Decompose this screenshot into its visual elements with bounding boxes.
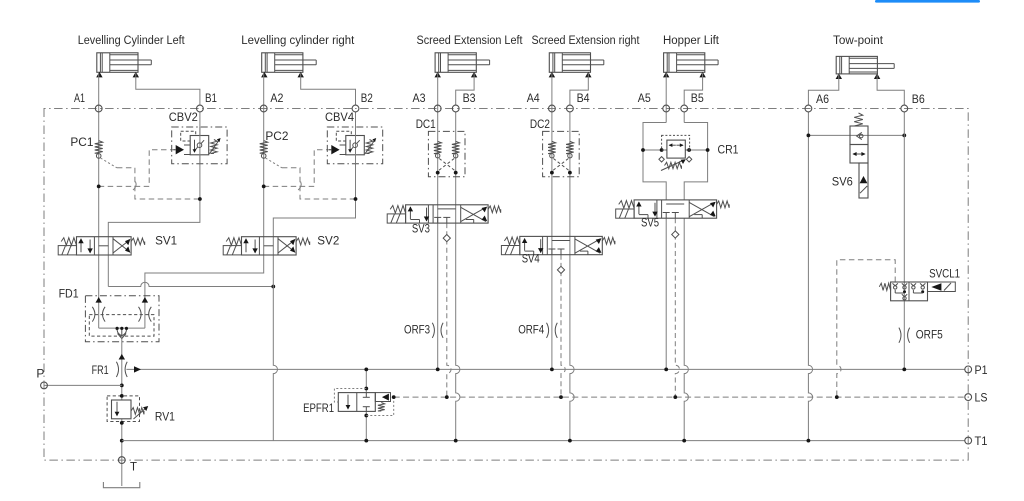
wire B2 line down through CBV4 to SV2 B-port bbox=[273, 112, 355, 237]
node ORF5 P junction bbox=[902, 368, 906, 372]
flow regulator CR1 bridge bbox=[643, 123, 666, 200]
svg-text:LS: LS bbox=[975, 390, 988, 404]
node A2 pilot junction bbox=[262, 185, 266, 189]
svg-text:A2: A2 bbox=[270, 91, 283, 105]
port B4 bbox=[567, 105, 574, 112]
node ORF3 P junction bbox=[436, 368, 440, 372]
wire LS rail (dashed) bbox=[394, 396, 965, 398]
node P junction bbox=[120, 384, 124, 388]
check valve SV3 LS bbox=[443, 235, 450, 242]
port LS bbox=[965, 394, 972, 401]
svg-text:P: P bbox=[36, 367, 44, 381]
cylinder 6 (Tow-point) bbox=[836, 56, 877, 74]
wire FD1 right branch to SV2 A-output bbox=[145, 255, 264, 328]
svg-text:PC2: PC2 bbox=[265, 129, 288, 143]
pressure compensator PC2 bbox=[260, 141, 268, 154]
port T bbox=[118, 457, 125, 464]
svg-text:SV6: SV6 bbox=[832, 175, 853, 189]
node EPFR1 P junction bbox=[364, 368, 368, 372]
orifice ORF4 bbox=[547, 323, 549, 338]
port B6 bbox=[901, 105, 908, 112]
wire T1 rail bbox=[122, 440, 965, 442]
svg-text:CBV2: CBV2 bbox=[169, 110, 198, 124]
port P1 bbox=[965, 366, 972, 373]
wire P port to main line bbox=[44, 384, 122, 386]
svg-text:ORF3: ORF3 bbox=[404, 323, 430, 337]
flow regulator FR1 bbox=[119, 354, 125, 360]
svg-text:Screed Extension Left: Screed Extension Left bbox=[417, 33, 523, 47]
wire EPFR1 riser bbox=[365, 369, 367, 392]
port A1 bbox=[95, 105, 102, 112]
svg-text:CR1: CR1 bbox=[718, 143, 739, 157]
svg-text:SV2: SV2 bbox=[317, 233, 339, 247]
svg-text:P1: P1 bbox=[975, 363, 988, 377]
wire B3 line down to T rail bbox=[456, 112, 460, 441]
svg-text:T1: T1 bbox=[975, 434, 988, 448]
wire cylinder5 rod-side to B5 bbox=[684, 73, 702, 105]
node B1 pilot junction bbox=[198, 197, 202, 201]
wire SV1 B-output down and right to tank drop bbox=[108, 282, 273, 286]
svg-text:B1: B1 bbox=[205, 91, 217, 105]
svg-text:Screed Extension right: Screed Extension right bbox=[532, 33, 640, 47]
blue accent bar (top-right) bbox=[875, 0, 980, 3]
wire FD1 output down to tank port T bbox=[121, 339, 123, 487]
node SV1/SV2 tank-line junction bbox=[271, 285, 275, 289]
counterbalance valve CBV4 bbox=[327, 127, 382, 164]
solenoid valve SVCL1 bbox=[879, 283, 890, 290]
port A2 bbox=[260, 105, 267, 112]
orifice ORF3 bbox=[432, 323, 434, 338]
solenoid cartridge valve SV6 bbox=[854, 113, 863, 126]
node SV3 LS junction bbox=[445, 395, 449, 399]
svg-text:Levelling Cylinder Left: Levelling Cylinder Left bbox=[78, 33, 185, 47]
pilot line PC1 to B1 (dashed) bbox=[101, 158, 117, 168]
wire A5 line to CR1 bbox=[665, 73, 667, 123]
node SV5 LS junction bbox=[673, 395, 677, 399]
wire A5 line down from SV5 to P rail bbox=[665, 218, 667, 369]
LS feeder SV4 (dashed with check) bbox=[561, 255, 565, 397]
wire cylinder6 cap-side to A6 bbox=[808, 74, 838, 105]
port B2 bbox=[352, 105, 359, 112]
svg-text:Levelling cylinder right: Levelling cylinder right bbox=[241, 33, 355, 47]
svg-text:SV5: SV5 bbox=[641, 215, 659, 229]
dual check DC1 bbox=[428, 131, 465, 176]
svg-text:T: T bbox=[130, 460, 138, 474]
wire A3 line down through DC1, SV3 to ORF3 bbox=[437, 73, 439, 370]
svg-text:Hopper Lift: Hopper Lift bbox=[663, 33, 720, 47]
wire A6 line down to T rail bbox=[808, 112, 812, 441]
svg-text:B6: B6 bbox=[912, 92, 925, 106]
node B4 T junction bbox=[568, 439, 572, 443]
svg-text:A1: A1 bbox=[74, 91, 85, 105]
solenoid valve SV5 bbox=[634, 200, 717, 218]
svg-text:B3: B3 bbox=[463, 91, 476, 105]
svg-text:EPFR1: EPFR1 bbox=[303, 401, 334, 415]
wire cylinder6 rod-side to B6 bbox=[877, 74, 904, 105]
port B3 bbox=[452, 105, 459, 112]
tank symbol bbox=[103, 482, 139, 488]
pressure compensator PC1 bbox=[95, 141, 103, 154]
cylinder 5 (Hopper Lift) bbox=[664, 53, 705, 73]
pilot crossing tick section2 bbox=[298, 182, 301, 190]
wire B4 line down to T rail bbox=[570, 112, 574, 441]
port P bbox=[41, 382, 48, 389]
wire A6-B6 cross line through SV6 bbox=[808, 134, 904, 136]
wire P1 rail bbox=[126, 368, 964, 370]
port T1 bbox=[965, 437, 972, 444]
port A6 bbox=[805, 105, 812, 112]
wire cylinder3 rod-side to B3 bbox=[456, 73, 474, 105]
wire A2 line down through PC2 and SV2 bbox=[263, 73, 265, 255]
check valve SV5 LS bbox=[672, 231, 679, 238]
wire A1 line (cylinder1 cap-side down through PC1, SV1 to FD1) bbox=[98, 73, 100, 328]
node SVCL1 LS junction bbox=[835, 395, 839, 399]
pilot crossing tick section1 bbox=[133, 182, 136, 190]
wire B5 line down to T rail bbox=[683, 112, 685, 123]
flow divider FD1 bbox=[85, 296, 159, 342]
LS feeder SV5 (dashed with check) bbox=[675, 218, 679, 397]
node A6 cross junction bbox=[807, 134, 811, 138]
node B3 T junction bbox=[454, 439, 458, 443]
svg-text:A5: A5 bbox=[638, 91, 651, 105]
arrow P rail flow bbox=[134, 366, 141, 372]
node EPFR1 T junction bbox=[364, 439, 368, 443]
wire SV1 B-port pass-through bbox=[107, 237, 109, 255]
node T rail left junction bbox=[120, 439, 124, 443]
wire cylinder1 rod-side to B1 bbox=[136, 73, 200, 105]
svg-text:A3: A3 bbox=[413, 91, 426, 105]
svg-text:SV4: SV4 bbox=[522, 251, 540, 265]
node A6 T junction bbox=[807, 439, 811, 443]
svg-text:SV1: SV1 bbox=[155, 233, 177, 247]
wire cylinder2 rod-side to B2 bbox=[301, 73, 356, 105]
port A5 bbox=[663, 105, 670, 112]
node SV4 LS junction bbox=[559, 395, 563, 399]
manifold boundary frame (dash-dot) bbox=[44, 109, 968, 461]
svg-text:FR1: FR1 bbox=[92, 363, 109, 377]
node B6 cross junction bbox=[902, 134, 906, 138]
svg-text:FD1: FD1 bbox=[59, 287, 79, 301]
solenoid valve SV2 bbox=[242, 237, 297, 255]
svg-text:PC1: PC1 bbox=[70, 135, 93, 149]
node B5 T junction bbox=[682, 439, 686, 443]
svg-text:A6: A6 bbox=[816, 92, 829, 106]
svg-text:SV3: SV3 bbox=[412, 222, 430, 236]
port A3 bbox=[434, 105, 441, 112]
cylinder 2 (Levelling cylinder right) bbox=[262, 53, 303, 73]
dual check DC2 bbox=[543, 131, 580, 176]
node A1 pilot junction bbox=[97, 185, 101, 189]
svg-text:DC1: DC1 bbox=[416, 117, 436, 131]
wire B6 line down through SVCL1 and ORF5 to P rail bbox=[903, 112, 905, 370]
solenoid valve SV3 bbox=[406, 205, 489, 223]
svg-text:B4: B4 bbox=[577, 91, 590, 105]
check valve SV4 LS bbox=[557, 266, 564, 273]
pilot line PC2 to B2 (dashed) bbox=[266, 158, 282, 168]
cylinder 3 (Screed Extension Left) bbox=[435, 53, 476, 73]
svg-text:B5: B5 bbox=[691, 91, 704, 105]
port B5 bbox=[681, 105, 688, 112]
svg-text:Tow-point: Tow-point bbox=[833, 33, 884, 47]
svg-text:A4: A4 bbox=[527, 91, 540, 105]
svg-text:DC2: DC2 bbox=[530, 117, 550, 131]
wire A4 line down through DC2, SV4 to ORF4 bbox=[551, 73, 553, 370]
pilot line A2 to CBV4 (dashed) bbox=[264, 150, 332, 187]
svg-text:ORF4: ORF4 bbox=[518, 323, 544, 337]
node ORF4 P junction bbox=[550, 368, 554, 372]
solenoid valve SV4 bbox=[520, 236, 603, 254]
pressure reducing valve EPFR1 bbox=[338, 393, 375, 412]
node SV5 P junction bbox=[664, 368, 668, 372]
pilot line A1 to CBV2 (dashed) bbox=[99, 150, 176, 187]
wire SV2 B-output down to T rail bbox=[273, 237, 277, 441]
pilot line SVCL1 LS (dashed) bbox=[837, 260, 895, 397]
svg-text:ORF5: ORF5 bbox=[916, 328, 943, 342]
cylinder 1 (Levelling Cylinder Left) bbox=[97, 53, 138, 73]
orifice ORF5 bbox=[899, 328, 901, 343]
solenoid valve SV1 bbox=[77, 237, 132, 255]
LS feeder SV3 (dashed with check) bbox=[447, 223, 451, 397]
svg-text:B2: B2 bbox=[361, 91, 373, 105]
cylinder 4 (Screed Extension right) bbox=[549, 53, 590, 73]
wire B1 line (B1 port down through CBV2 to corner) bbox=[108, 112, 200, 237]
port A4 bbox=[549, 105, 556, 112]
wire cylinder4 rod-side to B4 bbox=[570, 73, 588, 105]
svg-text:RV1: RV1 bbox=[155, 409, 175, 423]
counterbalance valve CBV2 bbox=[172, 127, 227, 164]
port B1 bbox=[197, 105, 204, 112]
svg-text:CBV4: CBV4 bbox=[325, 110, 354, 124]
node B2 pilot junction bbox=[354, 197, 358, 201]
svg-text:SVCL1: SVCL1 bbox=[929, 267, 960, 281]
relief valve RV1 bbox=[107, 396, 139, 422]
